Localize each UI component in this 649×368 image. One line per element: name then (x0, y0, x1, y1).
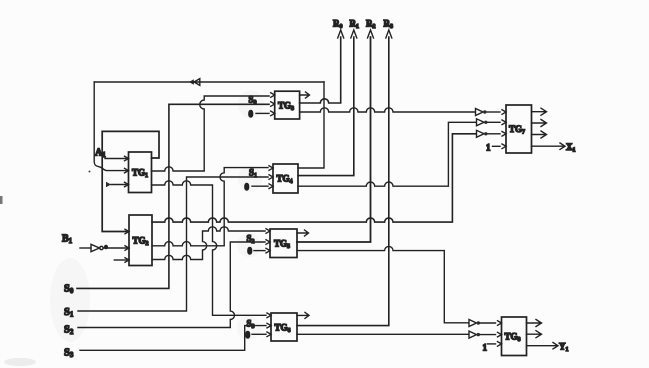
wire TG4 middle output to R1 (298, 37, 354, 176)
wire TG2 bottom output up to TG5 top input (152, 227, 265, 260)
wire 1 to TG7 input 4 (493, 145, 501, 147)
wire TG1 bottom output down to TG6 top input (152, 181, 267, 315)
pin arrows TG2 inputs (125, 229, 129, 262)
wire 0 to TG5 bottom input (254, 250, 265, 252)
wire TG2 middle output up to TG4 top input (jogs over S1 branch) (152, 168, 268, 246)
wire TG1 top output loop to TG2 top input (102, 131, 159, 231)
wire 1 to TG8 input 3 (488, 343, 496, 345)
transmission-gate block TG3 (275, 91, 300, 119)
buffer triangle TG7 input 1 (476, 109, 501, 116)
pin arrows TG8 inputs (498, 321, 502, 347)
output R3 arrow and label (384, 19, 394, 39)
wire TG1 middle output to TG3 top input (hops S0 rail and S0 branch) (152, 96, 270, 171)
wire TG7 output X1 (532, 142, 576, 154)
transmission-gate block TG4 (273, 164, 298, 193)
wire TG8 output arrows (527, 320, 542, 338)
svg-text:R2: R2 (366, 19, 376, 31)
svg-text:0: 0 (248, 246, 253, 256)
svg-text:B1: B1 (62, 234, 73, 246)
wire feedback top (TG4 top output to left rail) (94, 82, 324, 168)
wire TG1 bottom input (111, 184, 126, 186)
svg-text:R0: R0 (333, 19, 343, 31)
node edge mark (0, 196, 3, 204)
svg-text:TG5: TG5 (274, 239, 290, 251)
svg-text:0: 0 (246, 330, 251, 340)
wire TG3 bottom output to TG7 input 1 (hops 4 rails) (300, 108, 475, 112)
transmission-gate block TG2 (129, 215, 152, 266)
wire S0 to TG3 middle input (77, 104, 269, 288)
transmission-gate block TG6 (271, 313, 297, 341)
output R2 arrow and label (366, 19, 376, 39)
wire S2 to TG5 middle input (hops TG6 top-in wire) (78, 242, 265, 328)
transmission-gate block TG5 (270, 229, 297, 258)
output R0 arrow and label (333, 19, 344, 39)
wire 0 to TG6 bottom input (252, 333, 266, 335)
wire TG5 middle output to R2 (297, 37, 371, 242)
wire A1 input (105, 158, 126, 160)
wire TG6 top output arrow (297, 312, 309, 318)
svg-text:TG7: TG7 (509, 124, 525, 136)
wire S1 to TG4 middle input (78, 177, 268, 311)
output R1 arrow and label (350, 19, 360, 39)
svg-text:1: 1 (486, 143, 491, 153)
svg-text:TG8: TG8 (505, 332, 521, 344)
wire inverter to TG2 (103, 247, 126, 249)
transmission-gate block TG7 (506, 105, 532, 153)
wire TG3 middle output to R0 (300, 37, 341, 103)
svg-text:0: 0 (245, 182, 250, 192)
svg-text:1: 1 (483, 343, 488, 353)
wire TG2 top output to TG7 input 3 (long, hops 6 rails) (152, 134, 476, 222)
wire feedback left leg into TG1 middle input (94, 82, 126, 171)
svg-text:R3: R3 (384, 19, 394, 31)
svg-text:TG4: TG4 (277, 174, 293, 186)
svg-text:A1: A1 (95, 148, 106, 160)
svg-text:Y1: Y1 (559, 342, 569, 354)
svg-text:TG6: TG6 (275, 323, 291, 335)
pin arrows TG6 inputs (267, 313, 271, 337)
svg-text:TG2: TG2 (133, 236, 149, 248)
transmission-gate block TG8 (502, 317, 527, 356)
buffer triangle TG7 input 2 (477, 119, 501, 126)
wire TG8 output Y1 (527, 342, 569, 354)
wire TG7 output arrows (532, 108, 547, 138)
wire B1 input (80, 247, 91, 249)
transmission-gate block TG1 (129, 152, 152, 193)
svg-text:S3: S3 (64, 348, 74, 360)
wire TG2 bottom stub (114, 259, 126, 261)
buffer triangle TG8 input 1 (469, 320, 496, 327)
svg-text:TG3: TG3 (278, 101, 294, 113)
node stray dot (89, 171, 91, 173)
svg-text:X1: X1 (566, 142, 576, 154)
buffer triangle TG8 input 2 (469, 331, 496, 338)
pin arrows TG1 inputs (125, 156, 129, 187)
inverter symbol at TG1 bottom input (106, 182, 111, 187)
inverter B1 (triangle with bubble) (91, 244, 103, 251)
wire 0 to TG3 bottom input (256, 112, 269, 114)
wire TG6 middle output to R3 (297, 37, 389, 326)
wire TG3 top output arrow (300, 92, 310, 98)
svg-text:R1: R1 (350, 19, 360, 31)
node arrow left-pointing on feedback wire (189, 79, 200, 86)
pin arrows TG4 inputs (269, 166, 273, 189)
pin arrows TG3 inputs (271, 93, 275, 116)
svg-text:TG1: TG1 (132, 168, 148, 180)
scan noise patches (4, 90, 264, 366)
svg-text:0: 0 (249, 109, 254, 119)
wire 0 to TG4 bottom input (252, 185, 268, 187)
wire TG5 bottom output down to TG8 input 1 (hops R3) (297, 246, 468, 322)
wire TG6 bottom output to TG8 input 2 (297, 333, 469, 335)
wire TG4 bottom output to TG7 input 2 (hops R2 R3) (298, 122, 476, 186)
pin arrows TG7 inputs (502, 110, 506, 149)
buffer triangle TG7 input 3 (477, 130, 501, 137)
pin arrows TG5 inputs (266, 229, 270, 253)
wire TG5 top output arrow (297, 230, 309, 236)
wire S3 to TG6 middle input (80, 326, 266, 351)
